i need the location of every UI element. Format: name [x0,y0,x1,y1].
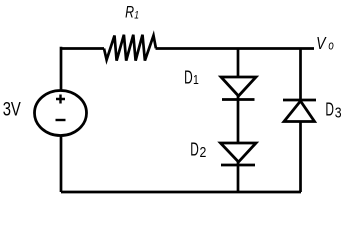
svg-text:D: D [184,68,193,88]
label 3V [3,99,22,120]
svg-text:1: 1 [134,9,139,21]
label D3 [325,100,334,120]
svg-text:R: R [125,4,134,22]
wire: bottom rail [61,191,301,194]
voltage source 3V [35,91,87,136]
diode D2 [221,143,257,162]
svg-text:D: D [190,140,199,160]
svg-text:1: 1 [193,73,199,87]
svg-text:V: V [316,33,326,53]
label R1 [125,4,139,22]
svg-text:o: o [328,40,333,53]
label D2 [190,140,199,160]
wire: right branch vertical [299,49,302,193]
wire: top rail from left corner to Vo stub [61,47,104,50]
svg-text:3V: 3V [3,99,22,120]
wire: left branch vertical [60,47,63,192]
wire: middle branch vertical [237,49,240,193]
svg-text:2: 2 [200,144,207,160]
resistor R1 [104,35,156,61]
node Vo [316,33,334,53]
svg-text:D: D [325,100,334,120]
svg-text:3: 3 [335,104,342,120]
label D1 [184,68,193,88]
diode D1 [221,77,256,96]
diode D3 [283,99,316,102]
